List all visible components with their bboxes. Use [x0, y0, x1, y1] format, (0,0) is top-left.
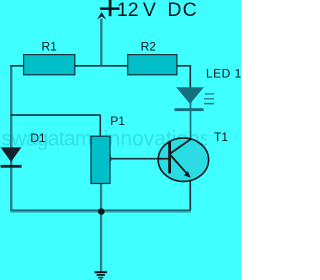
svg-text:D1: D1 [30, 131, 46, 145]
svg-text:R1: R1 [42, 39, 58, 53]
svg-text:T1: T1 [214, 130, 228, 144]
svg-text:LED 1: LED 1 [206, 66, 241, 80]
svg-text:P1: P1 [110, 114, 125, 128]
svg-text:R2: R2 [141, 39, 157, 53]
